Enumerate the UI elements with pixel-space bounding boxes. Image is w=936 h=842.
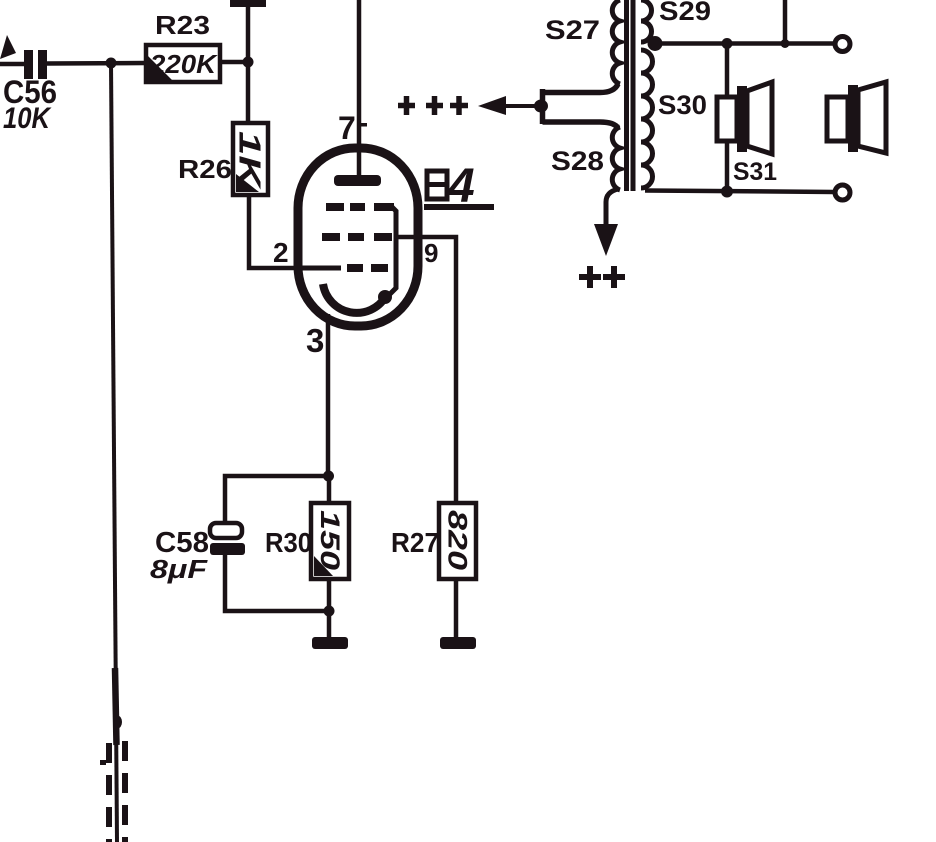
cable dashes bottom left [109,741,125,842]
stray mark [100,760,106,765]
tube type label B4 [424,160,494,213]
wire entering from top edge [783,0,788,44]
wire: node A long vertical down [111,63,117,842]
wire: speaker S31 top lead [725,44,730,99]
winding S29 [641,0,652,42]
wire: node C to R30 [327,476,332,504]
svg-text:S28: S28 [551,146,604,176]
terminal top [835,37,850,52]
winding S28 [612,127,620,190]
wire: secondary bottom output [645,191,834,193]
resistor R26 [233,123,269,195]
node: secondary tap junction [648,36,663,51]
wire: secondary top output [655,41,834,46]
winding S27 [612,0,620,84]
wire: node C to C58 [225,476,328,524]
resistor R27 [439,503,476,579]
svg-text:R30: R30 [265,527,312,558]
resistor R30 [311,503,349,579]
external speaker [827,82,886,153]
supply arrowhead [478,96,506,115]
svg-text:R26: R26 [178,154,232,184]
tube anode (plate) and lead to pin 7 [334,0,381,186]
svg-text:9: 9 [424,238,438,268]
svg-text:R23: R23 [155,10,210,40]
wire: R26 to tube pin 2 [249,194,300,268]
svg-text:3: 3 [306,322,324,359]
wire: input to C56 [0,62,24,67]
svg-text:R27: R27 [391,527,439,558]
component stub at top edge [230,0,266,7]
capacitor C56 [24,50,47,79]
node B junction [243,57,254,68]
svg-text:820: 820 [443,510,473,570]
input signal arrow [0,35,16,59]
svg-text:S30: S30 [658,90,707,120]
scan blob on long wire [113,716,122,729]
wire: grid row 2 out to pin 9 and down to R27 [397,237,456,503]
svg-text:S27: S27 [545,15,600,45]
tube cathode [323,284,386,313]
node A junction [106,58,117,69]
ground (R30) [312,637,348,649]
wire: node B down to R26 [246,4,251,124]
grid 1 internal connection to cathode [387,207,396,297]
svg-text:220K: 220K [149,49,218,79]
label ++ [579,266,625,288]
wire: R23 to node B [220,60,248,65]
speaker S31 [717,82,772,154]
capacitor C58 [210,523,245,555]
tube grid row 1 (screen) [326,203,394,211]
tube V1 envelope [298,148,418,326]
terminal bottom [835,185,850,200]
wire: R27 to ground [454,579,459,640]
svg-text:7: 7 [338,110,356,146]
tube grid row 2 (to pin 9) [322,233,392,241]
svg-text:10K: 10K [3,102,52,135]
svg-text:S31: S31 [733,158,777,186]
svg-text:150: 150 [315,510,345,570]
wire: supply arrow to transformer tap [504,84,618,128]
svg-text:2: 2 [273,237,289,268]
winding S30 [641,50,653,188]
svg-text:8μF: 8μF [150,554,208,584]
supply symbol +++ [398,96,468,115]
tube grid row 3 (control grid, pin 2) [300,266,388,271]
wire: S28 bottom to ++ arrow [606,189,618,227]
wire: speaker S31 bottom lead [725,140,730,192]
transformer core [624,0,636,191]
wire: cathode pin 3 down [326,314,331,478]
svg-text:S29: S29 [659,0,711,26]
wire: C58 bottom to node D [225,555,329,611]
resistor R23 [146,45,220,82]
svg-text:1K: 1K [233,131,268,191]
node D junction [324,606,335,617]
wire: R30 to node D [327,579,332,640]
wire: C56 to node A to R23 [47,61,145,66]
tick on anode lead [361,123,367,127]
node C junction (pin3 / R30 / C58 top) [323,471,334,482]
ground (R27) [440,637,476,649]
